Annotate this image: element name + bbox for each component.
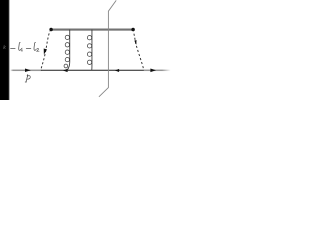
gluon line, right: coil loops [87, 36, 91, 65]
top thick gray line (hard scattering bar) [51, 29, 133, 31]
wire: bottom quark line, right gray (eikonal) segment [144, 70, 171, 72]
arrowhead on right dashed line [134, 40, 136, 45]
label: k (faint, on black strip) [4, 45, 6, 49]
black strip at left edge (cropped margin) [0, 0, 9, 100]
background [0, 0, 174, 100]
gluon line, left: coil loops [64, 35, 69, 68]
node: left vertex dot [49, 28, 53, 32]
subscript 1 [21, 48, 22, 51]
letter l (first) [19, 42, 21, 50]
arrow on bottom line (left-pointing, right of cut) [115, 69, 119, 72]
minus sign 1 [11, 47, 16, 49]
cut line (final state cut) [99, 0, 116, 96]
arrow on bottom line (left-pointing, at left gluon junction) [63, 69, 68, 72]
subscript 2 [37, 48, 39, 51]
gluon line, right: strand [91, 30, 93, 71]
node: right vertex dot [131, 28, 135, 32]
arrowhead on left dashed line [44, 49, 47, 55]
minus sign 2 [26, 47, 31, 49]
arrow on bottom line (right-pointing, left segment) [25, 68, 31, 72]
gluon line, left: strand [67, 30, 69, 71]
wire: bottom quark line, left gray (eikonal) segment [10, 70, 41, 72]
label: p (proton momentum, hand-drawn) [25, 75, 30, 83]
dashed eikonal line, left (from left vertex down to quark line) [41, 31, 50, 69]
arrow on bottom line (right-pointing, right segment) [150, 69, 156, 73]
label: "- l1 - l2" (momentum label, hand-drawn glyphs) [11, 42, 39, 51]
letter l (second) [34, 42, 36, 50]
wire: bottom quark line, middle black segment [41, 69, 144, 71]
dashed eikonal line, right (from right vertex down to quark line) [133, 32, 143, 70]
